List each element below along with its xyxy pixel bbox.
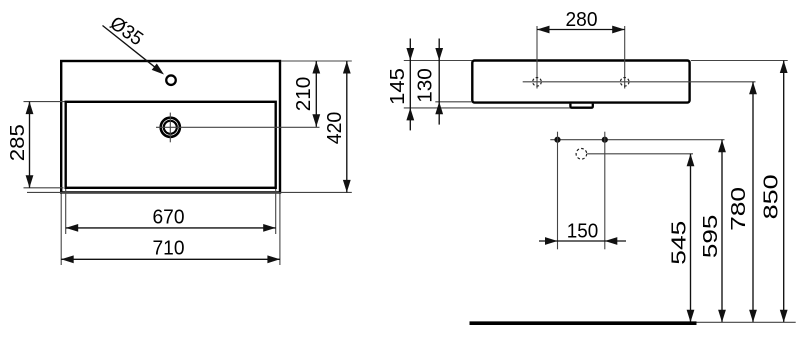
dimension 670 line xyxy=(66,227,276,229)
dimension 150 line xyxy=(539,240,626,242)
fixing point left (dot) xyxy=(554,137,560,143)
dimension 285 line xyxy=(29,102,31,188)
arrow 780 top xyxy=(749,82,757,95)
extension line 285 bottom xyxy=(24,187,64,189)
drain outlet below body xyxy=(570,104,592,108)
arrow 595 bottom xyxy=(718,310,726,323)
extension line 150 right vertical xyxy=(604,132,606,250)
arrow 545 bottom xyxy=(687,310,695,323)
arrow 145 bottom (outside) xyxy=(406,108,414,121)
extension line top right of rim xyxy=(281,60,352,62)
extension line 710 left xyxy=(60,194,62,266)
svg-text:670: 670 xyxy=(153,205,185,228)
svg-text:285: 285 xyxy=(6,124,29,161)
svg-text:595: 595 xyxy=(699,215,722,259)
svg-text:280: 280 xyxy=(566,8,598,31)
drain centerline vertical xyxy=(169,113,171,143)
extension line 150 left vertical xyxy=(557,132,559,250)
dimension 595 line xyxy=(721,140,723,323)
washbasin body (front view) xyxy=(472,61,689,103)
extension line 280 right vertical xyxy=(624,26,626,89)
extension line 280 left vertical xyxy=(536,26,538,89)
drain inner circle xyxy=(164,121,177,134)
arrow 285 top xyxy=(26,102,34,115)
arrow 210 top xyxy=(312,61,320,74)
arrow 280 left xyxy=(537,26,550,34)
arrow 280 right xyxy=(612,26,625,34)
dimension 420 line xyxy=(346,61,348,192)
arrow 145 top (outside) xyxy=(406,48,414,61)
dimension 145 line xyxy=(409,39,411,131)
arrow 595 top xyxy=(718,140,726,153)
dimension 280 line xyxy=(537,29,625,31)
svg-text:850: 850 xyxy=(760,174,783,219)
drain trap level line (to 545 dim) xyxy=(587,153,693,155)
floor extension line (thin) xyxy=(697,321,796,323)
svg-text:545: 545 xyxy=(667,221,690,265)
arrow 545 top xyxy=(687,154,695,167)
extension line bottom (long, under rim) xyxy=(27,191,352,193)
dimension 545 line xyxy=(690,154,692,322)
leader arrowhead xyxy=(152,64,164,75)
arrow 285 bottom xyxy=(26,175,34,188)
washbasin outer rim (top view) xyxy=(61,61,280,192)
arrow 210 bottom xyxy=(312,114,320,127)
arrow 850 bottom xyxy=(780,310,788,323)
svg-text:145: 145 xyxy=(386,68,409,105)
fixing point right (dot) xyxy=(602,137,608,143)
arrow 670 left xyxy=(66,224,79,232)
svg-text:710: 710 xyxy=(153,237,185,260)
drain outer circle xyxy=(161,118,180,137)
tap hole (circle 35mm) xyxy=(166,75,176,85)
svg-text:130: 130 xyxy=(413,68,436,103)
floor line (thick) xyxy=(470,321,697,325)
mounting hole right (hidden, dashed) xyxy=(620,78,629,87)
drain trap circle (hidden, dashed) xyxy=(576,149,587,160)
arrow 710 left xyxy=(61,255,73,263)
svg-text:150: 150 xyxy=(567,220,599,243)
svg-text:780: 780 xyxy=(727,187,750,231)
svg-text:210: 210 xyxy=(292,77,315,112)
arrow 850 top xyxy=(780,61,788,74)
extension line 670 right xyxy=(275,189,277,234)
extension line 145/130 top xyxy=(404,60,472,62)
arrow 150 right (outside) xyxy=(605,237,618,245)
extension line 145 bottom (to outlet) xyxy=(404,107,570,109)
arrow 670 right xyxy=(263,224,276,232)
drain centerline horizontal / extension to 210 dim xyxy=(156,126,320,128)
arrow 150 left (outside) xyxy=(545,237,558,245)
arrow 420 bottom xyxy=(343,180,351,193)
dimension 210 line xyxy=(315,61,317,127)
dimension 710 line xyxy=(61,258,280,260)
dimension 130 line xyxy=(438,39,440,125)
extension line 130 bottom xyxy=(435,101,472,103)
arrow 780 bottom xyxy=(749,310,757,323)
washbasin inner bowl (top view) xyxy=(66,102,276,188)
arrow 420 top xyxy=(343,61,351,74)
dimension 780 line xyxy=(752,82,754,322)
mounting holes level line (to 780 dim) xyxy=(523,81,756,83)
arrow 130 top (outside) xyxy=(435,48,443,61)
arrow 710 right xyxy=(267,255,280,263)
extension line 285 top xyxy=(24,101,65,103)
fixing points level line (to 595 dim) xyxy=(550,139,724,141)
mounting hole left (hidden, dashed) xyxy=(533,78,542,87)
svg-text:420: 420 xyxy=(323,112,346,145)
extension line 670 left xyxy=(65,189,67,234)
arrow 130 bottom (outside) xyxy=(435,102,443,115)
leader line to tap hole xyxy=(103,26,161,72)
extension line 710 right xyxy=(279,194,281,266)
dimension 850 line xyxy=(783,61,785,323)
top extension line (to 850 dim) xyxy=(691,60,788,62)
